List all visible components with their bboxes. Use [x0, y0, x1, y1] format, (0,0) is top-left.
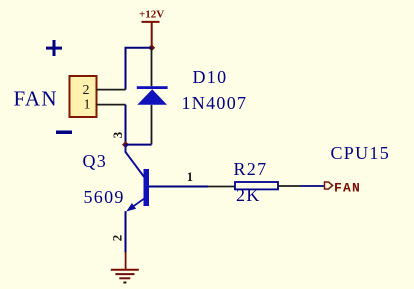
- svg-text:5609: 5609: [84, 187, 125, 207]
- svg-text:2: 2: [109, 235, 124, 242]
- svg-text:3: 3: [110, 131, 125, 138]
- svg-text:FAN: FAN: [334, 181, 361, 196]
- svg-text:D10: D10: [193, 67, 228, 87]
- plus polarity mark: [46, 40, 62, 56]
- junction A: [148, 44, 155, 51]
- wire/pin column through diode: [126, 48, 152, 145]
- ground: [111, 252, 139, 283]
- svg-text:1: 1: [187, 170, 193, 184]
- resistor R27 pin lead left: [208, 186, 235, 188]
- junction B: [122, 141, 129, 148]
- diode D10: [137, 86, 168, 105]
- resistor R27: [235, 182, 278, 189]
- wire emitter down to ground: [125, 211, 127, 252]
- connector FAN (2-pin header): [70, 76, 126, 117]
- svg-text:R27: R27: [234, 159, 268, 179]
- svg-text:CPU15: CPU15: [331, 143, 391, 163]
- power +12V: [139, 9, 164, 48]
- svg-text:2: 2: [83, 83, 90, 98]
- svg-text:2K: 2K: [236, 185, 261, 205]
- transistor Q3: [126, 145, 209, 212]
- port FAN (output): [325, 181, 362, 196]
- resistor R27 pin lead right / wire to port: [278, 185, 324, 187]
- wire from +12V junction to connector pin 2: [126, 48, 152, 90]
- svg-text:FAN: FAN: [14, 87, 58, 111]
- svg-text:Q3: Q3: [83, 151, 108, 171]
- svg-text:+12V: +12V: [139, 9, 164, 21]
- wire from connector pin 1 down to junction B: [125, 105, 127, 145]
- svg-text:1: 1: [84, 97, 91, 112]
- minus polarity mark: [56, 131, 72, 135]
- svg-text:1N4007: 1N4007: [182, 93, 248, 113]
